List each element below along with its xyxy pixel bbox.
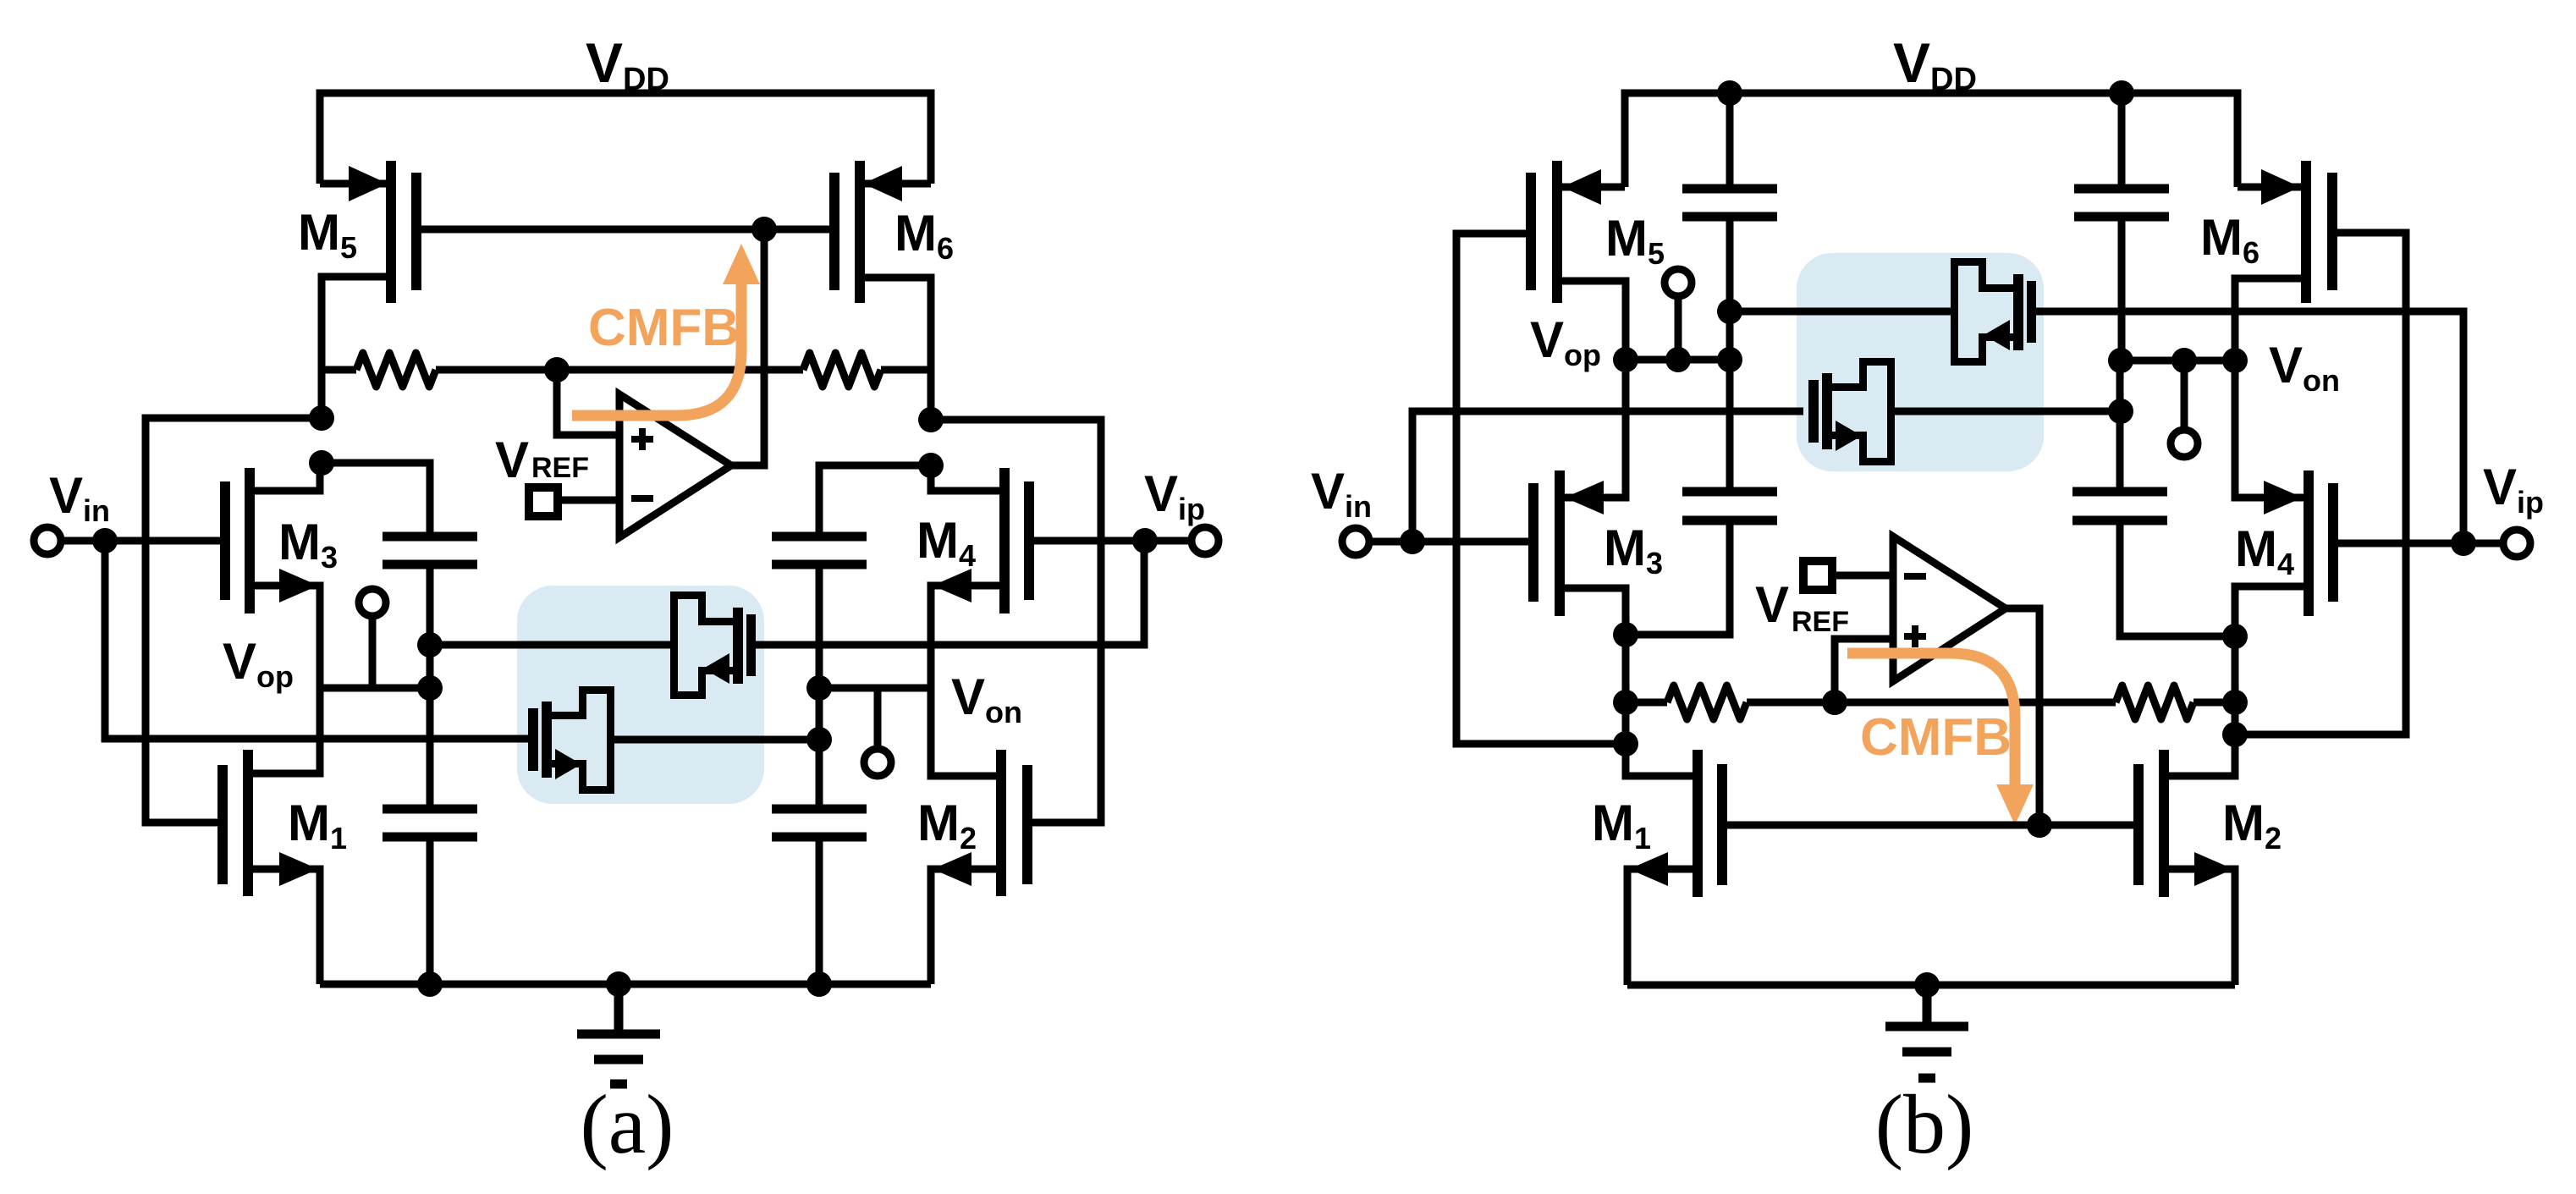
capacitor C1 (a) — [383, 536, 477, 564]
transistor M2 (a) drain lead — [931, 688, 1001, 776]
cross-coupled NMOS upper (a) body lead — [430, 641, 674, 649]
transistor M1 (b) gate lead — [1722, 822, 2039, 829]
output terminal Vip (b) — [2463, 530, 2530, 557]
gate line M5-M6 (a) — [416, 226, 834, 234]
node CMFB gate junction (b) — [2027, 812, 2052, 838]
Vin label (b) — [1311, 463, 1372, 524]
transistor M2 (b) bars — [2133, 750, 2169, 897]
transistor M4 (b) bars — [2304, 470, 2338, 616]
transistor M5 (a) drain lead — [322, 277, 391, 418]
VDD rail (a) — [320, 93, 931, 184]
Von open terminal (b) — [2171, 360, 2198, 457]
wire nodeY to Von via cap line (b) — [2120, 520, 2235, 636]
node lower-nmos tap (b) — [2108, 399, 2133, 424]
bottom rail (a) — [320, 981, 931, 988]
node R tap (b) — [1822, 690, 1847, 715]
transistor M1 (a) drain lead — [248, 688, 320, 773]
VREF label (a) — [495, 432, 589, 488]
transistor M5 (b) gate lead — [1456, 234, 1626, 744]
input terminal Vin (b) — [1342, 528, 1412, 555]
transistor M3 (a) bars — [220, 468, 255, 614]
cross-coupled NMOS lower (a) body lead — [610, 736, 819, 744]
transistor M1 (a) label — [288, 795, 347, 856]
Vop label (b) — [1530, 311, 1601, 372]
cross-coupled NMOS upper (a) gate lead — [756, 541, 1144, 645]
wire nodeX to Vop via cap line (b) — [1626, 520, 1730, 635]
node Vip dot (b) — [2451, 531, 2476, 556]
transistor M6 (b) label — [2200, 209, 2260, 270]
capacitor C4 (a) — [772, 809, 867, 837]
wire R mid to R2 (b) — [1835, 699, 2116, 707]
Vip label (a) — [1144, 465, 1205, 526]
transistor M4 (a) drain lead — [931, 465, 1005, 491]
node upper-nmos tap (b) — [1717, 299, 1742, 324]
transistor M6 (b) gate lead — [2235, 233, 2406, 735]
cross-coupled NMOS upper (a) symbol — [674, 596, 757, 696]
transistor M4 (b) source lead with arrow — [2235, 360, 2304, 514]
Vop line (b) — [1626, 356, 1730, 364]
transistor M2 (b) source lead with arrow — [2164, 852, 2235, 985]
svg-text:V: V — [1755, 576, 1789, 633]
cross-coupled NMOS upper (b) gate lead — [2036, 311, 2463, 543]
wire cap2 down (a) — [816, 564, 823, 809]
transistor M3 (b) label — [1604, 520, 1663, 580]
wire Vin up to lower nmos gate (b) — [1412, 411, 1803, 542]
VDD rail (b) — [1625, 93, 2237, 187]
resistor R1 (a) — [322, 353, 557, 387]
wire cap1 to Vop (a) — [427, 564, 434, 809]
transistor M4 (a) bars — [999, 468, 1034, 614]
transistor M5 (b) drain lead — [1557, 281, 1626, 360]
CMFB label (b) — [1860, 708, 2012, 767]
wire Vin to M3 gate (b) — [1412, 538, 1528, 546]
op-amp U1 (a) - input lead — [562, 497, 619, 504]
highlight box (a) around cross-coupled pair — [517, 586, 764, 804]
transistor M1 (a) bars — [217, 750, 253, 896]
transistor M6 (a) bars — [829, 161, 865, 303]
resistor R2 (b) — [2116, 685, 2235, 719]
wire nodeX vertical (b) — [1622, 588, 1630, 776]
node gate junction (a) — [751, 217, 777, 242]
node lower-nmos tap (a) — [806, 727, 832, 752]
CMFB arrow (a) — [572, 244, 760, 415]
wire cap7 up (b) — [1726, 360, 1734, 492]
Von line (b) — [2121, 357, 2235, 365]
svg-text:REF: REF — [531, 452, 589, 484]
op-amp U2 (b) output wire — [2006, 608, 2039, 825]
transistor M1 (b) source lead with arrow — [1627, 852, 1698, 985]
wire nodeB to M2 gate riser (a) — [931, 420, 1101, 823]
wire cap4 to rail (a) — [816, 837, 823, 984]
node B dots (a) — [918, 407, 944, 478]
svg-text:REF: REF — [1792, 606, 1849, 638]
capacitor C8 (b) — [2072, 492, 2167, 520]
input terminal Vin (a) — [34, 527, 105, 554]
svg-text:(b): (b) — [1875, 1077, 1974, 1171]
ground (a) — [577, 984, 660, 1084]
CMFB arrow (b) — [1847, 653, 2034, 825]
wire Vin down to lower nmos gate (a) — [105, 541, 528, 739]
transistor M1 (b) bars — [1693, 750, 1727, 897]
transistor M6 (a) label — [894, 205, 954, 266]
transistor M4 (b) drain lead — [2235, 586, 2309, 636]
rail ground dot (b) — [1914, 972, 1940, 998]
Vop open terminal (b) — [1665, 269, 1692, 360]
Von open terminal (a) — [864, 688, 891, 776]
Vin label (a) — [49, 467, 110, 528]
transistor M5 (a) bars — [386, 161, 421, 303]
Vop node dots (b) — [1613, 347, 1742, 372]
VREF terminal square (a) — [529, 487, 558, 516]
transistor M6 (a) drain lead — [860, 278, 931, 420]
wire cap3 to rail (a) — [427, 837, 434, 984]
transistor M3 (a) label — [278, 514, 338, 575]
rail dots (a) — [417, 971, 832, 997]
VREF terminal square (b) — [1803, 561, 1832, 590]
cross-coupled NMOS lower (a) symbol — [528, 691, 611, 790]
node Von left dot (a) — [806, 675, 832, 701]
op-amp U2 (b) - input lead — [1836, 572, 1893, 580]
svg-text:CMFB: CMFB — [588, 299, 740, 357]
Von node dots (b) — [2108, 348, 2248, 373]
resistor R1 (b) — [1626, 685, 1835, 719]
Vop line (a) — [322, 685, 430, 692]
node Vin dot (a) — [92, 528, 118, 553]
op-amp U2 (b) + input lead — [1835, 639, 1893, 702]
VDD label (b) — [1893, 31, 1977, 97]
transistor M2 (a) label — [917, 795, 977, 856]
bottom rail (b) — [1627, 982, 2235, 989]
op-amp U1 (a) triangle — [619, 394, 731, 537]
Von label (a) — [951, 669, 1022, 729]
transistor M3 (a) source lead with arrow — [250, 569, 320, 688]
capacitor C2 (a) — [772, 536, 867, 564]
svg-text:V: V — [495, 432, 529, 488]
wire nodeY vertical (b) — [2232, 586, 2239, 776]
Von line (a) — [819, 685, 931, 692]
Von label (b) — [2269, 337, 2340, 398]
resistor R2 (a) — [803, 353, 931, 387]
transistor M2 (b) gate lead — [2039, 822, 2138, 829]
node R tap (a) — [544, 357, 570, 382]
svg-text:(a): (a) — [581, 1077, 674, 1171]
transistor M5 (b) label — [1605, 210, 1665, 271]
ground (b) — [1885, 985, 1968, 1078]
capacitor C3 (a) — [383, 809, 477, 837]
Vop label (a) — [223, 633, 294, 694]
transistor M6 (b) source lead with arrow — [2237, 169, 2302, 205]
wire cap6 down (b) — [2118, 217, 2126, 360]
node upper-nmos tap (a) — [417, 632, 443, 658]
wire nodeA2 to cap1 (a) — [322, 463, 430, 536]
capacitor C6 (b) — [2074, 93, 2169, 217]
wire nodeA to M1 gate riser (a) — [146, 418, 322, 823]
transistor M6 (b) drain lead — [2235, 278, 2306, 360]
transistor M6 (a) source lead with arrow — [863, 166, 931, 201]
svg-text:CMFB: CMFB — [1860, 708, 2012, 767]
capacitor C5 (b) — [1682, 93, 1777, 217]
transistor M5 (a) source lead with arrow — [320, 166, 388, 201]
VDD rail dots (b) — [1717, 80, 2134, 106]
transistor M5 (b) source lead with arrow — [1560, 169, 1625, 205]
wire cap5 down (b) — [1726, 217, 1734, 360]
node Vop right dot (a) — [417, 675, 443, 701]
caption (a) — [581, 1077, 674, 1171]
transistor M4 (a) source lead with arrow — [931, 569, 1005, 688]
transistor M3 (b) source lead — [1560, 588, 1626, 635]
transistor M4 (b) label — [2235, 520, 2294, 581]
highlight box (b) around cross-coupled pair — [1797, 253, 2044, 471]
Vip label (b) — [2483, 459, 2544, 520]
node Vip dot (a) — [1132, 528, 1158, 553]
transistor M1 (a) source lead with arrow — [248, 852, 320, 984]
transistor M3 (b) bars — [1528, 470, 1565, 616]
caption (b) — [1875, 1077, 1974, 1171]
capacitor C7 (b) — [1682, 492, 1777, 520]
cross-coupled NMOS upper (b) body lead — [1730, 308, 1954, 316]
op-amp U2 (b) triangle — [1893, 536, 2006, 681]
transistor M5 (a) label — [298, 204, 357, 265]
output terminal Vip (a) — [1145, 527, 1219, 554]
transistor M4 (a) label — [916, 512, 976, 573]
transistor M3 (a) drain lead — [250, 463, 320, 491]
transistor M3 (b) drain lead with arrow — [1560, 360, 1626, 514]
CMFB label (a) — [588, 299, 740, 357]
transistor M1 (b) drain lead — [1626, 744, 1693, 776]
wire Vip to M4 gate (b) — [2338, 540, 2463, 547]
transistor M2 (a) source lead with arrow — [931, 852, 1001, 984]
cross-coupled NMOS lower (b) body lead — [1891, 408, 2121, 415]
VREF label (b) — [1755, 576, 1849, 638]
wire cap8 up (b) — [2116, 360, 2124, 492]
transistor M2 (b) label — [2222, 795, 2282, 856]
transistor M1 (b) label — [1592, 795, 1651, 856]
op-amp U1 (a) output wire — [731, 229, 764, 465]
node A dots (a) — [309, 405, 334, 476]
Vop open terminal (a) — [359, 589, 386, 688]
transistor M2 (b) drain lead — [2164, 735, 2235, 776]
node Vin dot (b) — [1400, 529, 1425, 554]
transistor M5 (b) bars — [1526, 161, 1562, 303]
VDD label (a) — [586, 31, 669, 97]
cross-coupled NMOS upper (b) symbol — [1955, 262, 2037, 362]
wire R mid to R2 (a) — [557, 366, 803, 374]
node Y dots (b) — [2222, 624, 2248, 747]
node X dots (b) — [1613, 622, 1638, 757]
wire Vip to M4 gate (a) — [1034, 537, 1145, 545]
transistor M6 (b) bars — [2301, 161, 2337, 303]
transistor M2 (a) bars — [996, 750, 1032, 896]
wire nodeB2 to cap2 (a) — [819, 465, 931, 536]
wire Vin to M3 gate (a) — [105, 537, 220, 545]
cross-coupled NMOS lower (b) symbol — [1808, 362, 1891, 462]
op-amp U1 (a) + input lead — [557, 370, 619, 435]
